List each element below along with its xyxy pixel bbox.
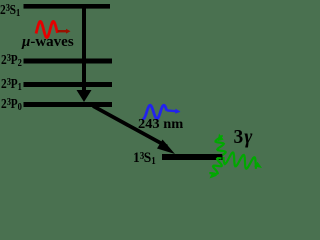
label 3gamma — [234, 128, 254, 148]
blue squiggle arrow tail — [167, 109, 176, 112]
level 2P0 line — [24, 102, 113, 107]
label 1(3)S1 — [133, 151, 156, 166]
level 2S1 line — [24, 4, 111, 9]
level 2P2 line — [24, 59, 113, 64]
label 2(3)P0 — [1, 97, 22, 111]
diagonal transition arrowhead — [157, 140, 175, 155]
level 1S1 line — [162, 154, 223, 160]
green gamma up arrowhead — [218, 134, 224, 142]
green gamma photon up — [216, 135, 226, 155]
red squiggle arrow tail — [58, 30, 67, 32]
vertical transition arrow shaft — [82, 8, 86, 90]
label 2(3)P1 — [1, 77, 22, 91]
red squiggle arrowhead — [66, 29, 71, 34]
label mu-waves — [22, 35, 74, 50]
blue squiggle arrowhead — [175, 109, 180, 114]
label 243 nm — [138, 118, 183, 132]
blue 243nm squiggle — [142, 105, 167, 119]
vertical transition arrowhead — [77, 90, 92, 102]
label 2(3)P2 — [1, 53, 22, 67]
diagonal transition shaft 2P0 -> 1S1 — [93, 106, 167, 147]
green gamma right arrowhead — [254, 162, 262, 168]
green gamma down-left arrowhead — [210, 172, 218, 179]
green gamma photon right — [224, 153, 257, 169]
label 2(3)S1 — [0, 3, 20, 17]
red microwave squiggle — [36, 22, 58, 38]
green gamma photon down-left — [209, 158, 222, 174]
level 2P1 line — [24, 82, 113, 87]
